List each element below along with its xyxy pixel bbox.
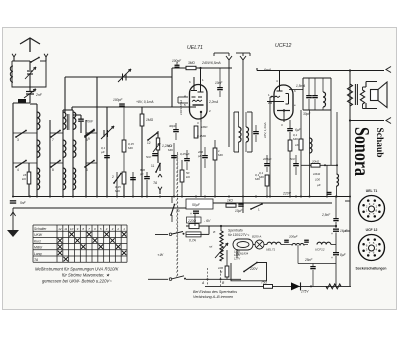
capacitor 2,5nF xyxy=(321,197,339,228)
svg-text:Verbindung A–B trennen: Verbindung A–B trennen xyxy=(193,295,233,299)
svg-text:100: 100 xyxy=(315,178,320,182)
speaker terminal bottom xyxy=(350,118,391,124)
note sperrtrafo removal xyxy=(193,290,237,299)
switch 4 xyxy=(13,160,37,172)
tube socket UCF 12 xyxy=(359,235,385,261)
svg-text:UEL 71: UEL 71 xyxy=(366,189,378,193)
cap 50uF link xyxy=(194,214,196,226)
switch 12 xyxy=(147,132,158,145)
svg-text:1kΩ: 1kΩ xyxy=(227,199,233,203)
svg-text:MΩ: MΩ xyxy=(115,189,120,193)
IFT2 right leg xyxy=(330,110,332,165)
svg-text:MΩ: MΩ xyxy=(293,137,298,141)
svg-text:+: + xyxy=(331,232,333,236)
tube UCF12 cathode dot xyxy=(283,109,285,111)
wire +8V line xyxy=(72,107,196,110)
heater UEL71 xyxy=(264,242,285,251)
wire tube grid stubs xyxy=(178,97,188,103)
coil det 2 xyxy=(337,112,339,197)
speaker terminal top xyxy=(386,67,391,73)
dashed link B xyxy=(220,270,222,286)
capacitor 0,25uF xyxy=(180,150,190,170)
svg-text:200pF: 200pF xyxy=(288,235,298,239)
svg-text:2nF: 2nF xyxy=(35,93,43,97)
IF transformer 2 xyxy=(303,78,331,110)
svg-text:UCF12: UCF12 xyxy=(315,248,325,252)
svg-text:2,5nF: 2,5nF xyxy=(321,213,331,217)
svg-text:1,5mA: 1,5mA xyxy=(296,84,305,88)
svg-text:10kΩ: 10kΩ xyxy=(313,172,321,176)
dial lamp 2 xyxy=(236,53,250,213)
speaker xyxy=(363,82,388,109)
switch 6 xyxy=(84,160,97,172)
TA pickup terminals xyxy=(153,163,162,194)
capacitor 30pF xyxy=(169,123,179,140)
capacitor 5nF UCF xyxy=(290,155,299,175)
svg-text:3MΩ: 3MΩ xyxy=(188,61,195,65)
coil det xyxy=(310,110,313,197)
svg-text:für 110/127V∿: für 110/127V∿ xyxy=(228,233,250,237)
switch table xyxy=(33,225,127,262)
svg-text:gr.: gr. xyxy=(213,230,217,234)
svg-text:MΩ: MΩ xyxy=(128,146,133,150)
svg-text:2: 2 xyxy=(116,227,119,231)
svg-text:B255-A: B255-A xyxy=(252,235,261,239)
resistor 1M det xyxy=(213,140,223,197)
svg-text:8: 8 xyxy=(52,168,54,172)
svg-text:110/107mA: 110/107mA xyxy=(179,100,183,115)
box 50uF label xyxy=(190,203,201,216)
mains switch pole 1 xyxy=(155,232,185,236)
switch 2 xyxy=(112,172,122,197)
svg-text:220V: 220V xyxy=(249,267,258,271)
svg-text:12: 12 xyxy=(147,141,151,145)
wire FM box to mixer xyxy=(65,77,172,113)
node B xyxy=(220,278,226,285)
svg-text:2,2mA: 2,2mA xyxy=(208,100,218,104)
mains wire lower xyxy=(205,285,351,287)
svg-text:Sperrtrafo: Sperrtrafo xyxy=(228,229,243,233)
svg-text:12: 12 xyxy=(58,227,62,231)
svg-text:+: + xyxy=(190,212,192,216)
coupling capacitor block xyxy=(18,99,26,104)
svg-text:50µF: 50µF xyxy=(192,203,201,207)
tube UEL71 pin labels xyxy=(184,78,211,125)
capacitor 6uF xyxy=(287,120,301,197)
tube socket UCF 12 pins xyxy=(362,238,380,256)
capacitor at bus xyxy=(327,192,332,195)
svg-text:70nF: 70nF xyxy=(86,120,95,124)
antenna xyxy=(20,38,40,52)
wire right main vertical xyxy=(349,69,351,121)
wire pin6 to IFT2 xyxy=(289,78,303,90)
tube UEL71 xyxy=(190,68,208,122)
switch 5 xyxy=(84,130,97,142)
svg-text:11: 11 xyxy=(151,164,155,168)
coil strand L3 xyxy=(63,110,66,197)
coil strand L4 xyxy=(63,110,76,197)
heater UCF12 xyxy=(315,242,336,251)
dashed link A xyxy=(207,268,209,286)
resistor 16k xyxy=(22,163,31,197)
switch 10 xyxy=(170,197,180,223)
bus line 2 xyxy=(13,207,194,209)
capacitor 5nF coupling xyxy=(146,153,158,159)
svg-text:Meßinstrument für Spannungen U: Meßinstrument für Spannungen UVA R310/K xyxy=(35,267,119,272)
svg-text:5nF: 5nF xyxy=(290,157,295,161)
heater filter xyxy=(284,235,309,246)
svg-text:10nF: 10nF xyxy=(215,81,223,85)
resistor 100ohm xyxy=(218,250,229,279)
resistor right 0,1M xyxy=(293,110,303,197)
switch a FM xyxy=(30,57,40,63)
UCF12 left stubs xyxy=(270,97,272,197)
svg-text:µF: µF xyxy=(317,183,321,187)
svg-text:rot: rot xyxy=(209,245,212,249)
switch table X marks xyxy=(58,232,127,261)
potentiometer 1,2M xyxy=(153,131,172,163)
sperrtrafo text xyxy=(228,229,250,238)
capacitor 5nF bus xyxy=(10,200,27,205)
svg-text:UCF12: UCF12 xyxy=(275,43,292,49)
barretter labels xyxy=(236,252,249,256)
svg-text:Schaub: Schaub xyxy=(375,128,385,158)
antenna terminal left xyxy=(12,54,16,61)
svg-text:+: + xyxy=(331,256,333,260)
svg-text:110V: 110V xyxy=(234,250,240,254)
tube socket UEL 71 xyxy=(359,196,385,222)
switch strand wire xyxy=(49,120,51,197)
mains switch pole 2 xyxy=(148,276,186,281)
svg-text:Mittel: Mittel xyxy=(34,246,42,250)
svg-text:gemessen bei UKW- Betrieb u.22: gemessen bei UKW- Betrieb u.220V~ xyxy=(42,279,112,284)
svg-text:240V/6,5mA: 240V/6,5mA xyxy=(201,61,221,65)
capacitor 8uF xyxy=(331,245,347,287)
capacitor 100pF anode xyxy=(172,59,182,68)
svg-text:UCF 12: UCF 12 xyxy=(366,228,378,232)
tuning capacitor on AM line xyxy=(118,69,131,82)
resistor 0,15M xyxy=(122,107,134,197)
FM input circuit box xyxy=(12,61,46,87)
switch 1 xyxy=(250,203,263,211)
svg-text:pF: pF xyxy=(197,154,202,158)
capacitor 25nF xyxy=(298,245,336,286)
tuning capacitor section 1 xyxy=(101,126,114,139)
svg-text:30pF: 30pF xyxy=(169,124,176,128)
svg-text:75Ω: 75Ω xyxy=(261,280,268,284)
tube UEL71 cathode dot xyxy=(200,111,202,113)
svg-text:127V: 127V xyxy=(234,257,240,261)
svg-text:Sockelschaltungen: Sockelschaltungen xyxy=(356,267,387,271)
svg-text:120V: 120V xyxy=(234,253,240,257)
tube socket UEL 71 pins xyxy=(362,199,380,217)
IF transformer 1 xyxy=(234,112,252,152)
capacitor 0,1uF xyxy=(101,146,110,158)
resistor 0,15M AF xyxy=(115,172,126,197)
resistor anode lower 1M xyxy=(194,122,208,197)
svg-text:5nF: 5nF xyxy=(20,201,27,205)
coil strand L2 xyxy=(30,104,40,197)
dial lamp 1 xyxy=(214,53,232,147)
svg-text:3: 3 xyxy=(17,138,19,142)
switch 7 xyxy=(50,130,63,142)
svg-text:Bei Einbau des Sperrtrafos: Bei Einbau des Sperrtrafos xyxy=(193,290,237,294)
switch 9 xyxy=(84,129,95,141)
voltage selector arm xyxy=(243,262,258,273)
svg-text:0,1MΩ: 0,1MΩ xyxy=(197,134,207,138)
capacitor AF xyxy=(130,172,136,197)
resistor 220ohm label xyxy=(187,217,211,223)
svg-text:- 6V: - 6V xyxy=(204,219,211,223)
svg-text:10µF: 10µF xyxy=(235,209,243,213)
svg-text:5nF: 5nF xyxy=(146,155,151,159)
svg-text:µF: µF xyxy=(101,150,105,154)
svg-text:2: 2 xyxy=(112,175,114,179)
svg-text:Lang: Lang xyxy=(34,252,42,256)
mains bus xyxy=(186,225,337,227)
svg-text:30pF: 30pF xyxy=(303,112,311,116)
svg-text:6: 6 xyxy=(86,168,88,172)
svg-text:Schalter: Schalter xyxy=(34,227,47,231)
mains wire upper xyxy=(186,278,241,280)
tube UCF12 pin labels xyxy=(268,79,296,127)
svg-text:∿W: ∿W xyxy=(157,253,164,257)
resistor 50k xyxy=(180,160,190,197)
meter note text xyxy=(35,267,119,284)
svg-text:4: 4 xyxy=(17,168,19,172)
svg-text:Kurz: Kurz xyxy=(34,239,41,243)
wire 20k row xyxy=(301,164,338,166)
svg-text:9: 9 xyxy=(88,137,90,141)
dial lamp symbol power xyxy=(252,235,264,250)
bus line 3 xyxy=(205,202,332,204)
svg-text:MΩ: MΩ xyxy=(168,148,173,152)
output transformer xyxy=(348,84,365,121)
svg-text:0,25µF: 0,25µF xyxy=(180,152,190,156)
svg-text:+8V, 0,1mA: +8V, 0,1mA xyxy=(136,100,154,104)
fuse corner link xyxy=(208,226,210,234)
svg-text:UEL71: UEL71 xyxy=(187,45,203,51)
coil L1 FM xyxy=(10,66,13,82)
resistor 0,1M right xyxy=(255,173,260,181)
screen capacitor 10nF xyxy=(215,68,223,97)
switch table texts xyxy=(34,227,125,262)
anode rail UCF12 xyxy=(257,68,384,80)
switch strand wire 2 xyxy=(85,120,87,197)
capacitor 200pF det xyxy=(197,147,208,168)
svg-text:UEL71: UEL71 xyxy=(266,248,276,252)
UKW transformer core xyxy=(67,114,69,130)
resistor 0,1M UCF xyxy=(259,171,269,197)
barretter REN oval xyxy=(233,239,255,250)
switch 11 xyxy=(151,163,161,173)
wire col 327 xyxy=(326,165,328,197)
voltage selector box xyxy=(231,263,267,281)
right edge vertical xyxy=(345,121,350,287)
switch 3 xyxy=(13,130,37,142)
voltage selector taps xyxy=(234,250,240,261)
capacitor 16uF xyxy=(331,229,348,245)
switch 8 xyxy=(50,160,63,172)
svg-text:pF: pF xyxy=(139,172,144,176)
svg-text:220V: 220V xyxy=(282,192,292,196)
main bus ground xyxy=(12,196,351,198)
ground symbol xyxy=(7,208,19,237)
resistor 75ohm xyxy=(261,280,273,288)
svg-text:MΩ: MΩ xyxy=(218,153,223,157)
svg-text:11: 11 xyxy=(64,227,67,231)
fuse 0,7A xyxy=(186,232,209,243)
trimmer capacitor 2nF xyxy=(24,87,43,99)
capacitor 70nF xyxy=(73,115,94,133)
tube UCF12 xyxy=(267,71,293,123)
sperrtrafo winding xyxy=(215,226,228,261)
node A xyxy=(201,278,209,285)
svg-text:10V, 1,4mA: 10V, 1,4mA xyxy=(263,123,267,138)
svg-text:MΩ: MΩ xyxy=(259,175,264,179)
svg-text:100pF: 100pF xyxy=(113,98,123,102)
resistor 3M xyxy=(186,61,196,70)
right pack wire xyxy=(96,77,98,197)
resistor 1M grid xyxy=(140,107,153,197)
svg-text:7: 7 xyxy=(52,138,54,142)
capacitor 100pF xyxy=(113,98,125,107)
svg-text:275V: 275V xyxy=(300,290,309,294)
svg-text:20kΩ: 20kΩ xyxy=(311,160,320,164)
resistor 0,2M xyxy=(168,143,177,197)
antenna terminal right xyxy=(44,54,48,61)
svg-text:1MΩ: 1MΩ xyxy=(201,125,208,129)
svg-text:1MΩ: 1MΩ xyxy=(146,118,154,122)
svg-text:0,7A: 0,7A xyxy=(189,239,197,243)
IF cap 1 xyxy=(253,125,259,142)
switch link hatched xyxy=(176,152,178,277)
surge resistor xyxy=(326,284,341,289)
resistor 1M UCF xyxy=(288,140,302,151)
capacitor 10uF xyxy=(235,204,244,214)
resistor 220 on bus xyxy=(189,224,199,229)
svg-text:für Ströme Mavometer, ★: für Ströme Mavometer, ★ xyxy=(62,273,110,278)
rectifier diode xyxy=(291,282,312,293)
svg-text:10: 10 xyxy=(70,227,74,231)
box 50uF xyxy=(186,199,213,209)
resistor 20k xyxy=(311,160,320,168)
wire antenna to coil pack xyxy=(13,99,30,197)
variable capacitor C1 FM xyxy=(25,61,36,87)
resistor 1k xyxy=(226,199,236,208)
capacitor 200pF UCF xyxy=(262,155,272,172)
svg-text:25nF: 25nF xyxy=(304,258,313,262)
svg-text:UKW: UKW xyxy=(34,233,43,237)
svg-text:MΩ: MΩ xyxy=(255,177,260,181)
labels 10k 100uF xyxy=(313,172,321,187)
wire mid vertical 107 xyxy=(106,107,108,197)
capacitor 800pF xyxy=(139,168,150,197)
anode rail UEL71 xyxy=(172,67,232,107)
svg-text:Sonora: Sonora xyxy=(350,127,374,176)
